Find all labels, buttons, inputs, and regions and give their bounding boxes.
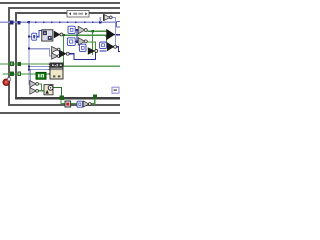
terminal T2 xyxy=(68,26,75,33)
wire stub into gate B xyxy=(49,56,52,57)
junction dot E out xyxy=(63,34,65,36)
gate E (solid) xyxy=(54,31,63,39)
wire green vertical x95.6 xyxy=(95,41,96,57)
loop 3 bottom edge (thick) xyxy=(15,97,120,100)
tunnel W1 on loop3 xyxy=(17,21,20,25)
wire NOT gate output xyxy=(112,17,116,18)
gate P1 xyxy=(30,81,39,88)
terminal T5 xyxy=(100,42,107,49)
wire green G1 right (long) xyxy=(63,65,120,67)
string indicator xyxy=(112,87,119,93)
wire navy vertical x77 xyxy=(76,30,77,43)
wire green E out to comparator U xyxy=(63,35,107,36)
tunnel G1 loop2 xyxy=(10,62,14,67)
wire A branch y66 subVI pin2 xyxy=(29,66,50,67)
wire P3 out xyxy=(90,103,95,104)
wire B elbow into gate P2 xyxy=(30,90,32,91)
wire NOT gate input vertical xyxy=(100,17,101,22)
stop control (red round icon) xyxy=(3,78,10,86)
dot A-T1 xyxy=(28,36,30,38)
outer while loop top edge xyxy=(0,2,120,4)
wire navy horizontal y59.6 xyxy=(73,59,96,60)
wire W1 blue dashed main xyxy=(0,22,117,23)
tunnel W2 loop2 xyxy=(10,72,14,77)
wire vertical B xyxy=(30,69,31,91)
dot A y48 xyxy=(28,48,30,50)
loop 3 top edge xyxy=(15,12,120,14)
dot x77 top xyxy=(76,29,78,31)
terminal T6 xyxy=(77,101,83,107)
wire G out xyxy=(100,50,107,51)
wire vertical A lavender xyxy=(28,22,29,85)
wire green vertical x106 to gate H xyxy=(106,36,107,44)
wire W1 dots xyxy=(19,21,94,23)
tunnel G3 on loop3 bottom xyxy=(60,96,64,100)
terminal T1 xyxy=(32,33,37,40)
outer while loop bottom edge xyxy=(0,112,120,114)
loop 2 bottom edge xyxy=(8,104,120,106)
tunnel G1 loop3 xyxy=(17,62,21,66)
comparator U (big solid) xyxy=(106,29,115,40)
wire A stub to terminal T1 xyxy=(29,36,32,37)
random dice icon xyxy=(42,30,53,41)
tunnel G4 on loop3 bottom xyxy=(93,95,97,100)
junction dot U input branch xyxy=(106,35,108,37)
wire navy vertical up to G out xyxy=(95,52,96,60)
loop 3 left edge xyxy=(15,12,17,99)
wire H out elbow xyxy=(116,46,119,47)
wait clock icon xyxy=(44,85,53,95)
dot A y66 xyxy=(28,66,30,68)
gate G (solid) xyxy=(88,47,98,55)
wire T3 out xyxy=(75,41,78,42)
subVI icon xyxy=(49,63,63,79)
loop 2 top edge xyxy=(8,7,120,9)
wire vertical to tunnel G4 xyxy=(94,99,95,105)
dot x77 bottom xyxy=(76,41,78,43)
wire clock out xyxy=(53,87,62,88)
gate A xyxy=(52,46,61,52)
tunnel W2 loop3 (hollow) xyxy=(17,72,21,76)
NOT gate N1 xyxy=(103,14,112,21)
wire A elbow into gate P1 xyxy=(28,84,30,85)
gate F (solid) xyxy=(59,50,69,58)
gate C xyxy=(78,26,87,34)
tunnel W1 on loop2 xyxy=(10,20,14,24)
gate D xyxy=(78,38,87,46)
terminal T3 xyxy=(67,38,75,46)
subVI left pins xyxy=(49,64,50,65)
junction W1 to vertical A xyxy=(28,21,30,23)
wire P1 out xyxy=(38,83,42,84)
gate P3 xyxy=(83,101,91,107)
wire green vertical x63 xyxy=(63,36,64,66)
junction dot C out xyxy=(92,30,94,32)
dot A y69 xyxy=(28,68,30,70)
wire P2 out xyxy=(38,90,44,91)
wire green G1 left xyxy=(0,63,50,64)
terminal T4 xyxy=(79,44,86,51)
wire green D out xyxy=(88,41,97,42)
wire below tunnel G3 xyxy=(60,100,61,104)
wire T2 out xyxy=(75,30,78,31)
wire green C out xyxy=(88,31,107,32)
wire green vertical x92 xyxy=(92,32,93,56)
wire B horizontal y69 subVI pin3 xyxy=(29,69,50,70)
wire U output xyxy=(115,34,120,35)
gate B xyxy=(52,53,61,59)
wire T1 out xyxy=(37,36,40,37)
wire F out navy xyxy=(69,53,74,54)
gate P2 xyxy=(30,88,39,95)
wire green W2 xyxy=(3,73,51,74)
boolean box at right edge xyxy=(117,22,122,27)
wire vertical x115.4 xyxy=(115,17,116,46)
case selector label xyxy=(67,11,89,18)
constant TM green box xyxy=(36,72,46,79)
wire red2 to T6 xyxy=(70,103,77,104)
loop 2 left edge xyxy=(8,7,10,106)
junction W1 to NOT gate xyxy=(99,21,101,23)
wire A branch y48 xyxy=(29,48,50,49)
wire vertical x49 gates A/B feed xyxy=(49,48,50,56)
gate H xyxy=(107,42,117,51)
error stop icon (red square) xyxy=(65,101,71,107)
